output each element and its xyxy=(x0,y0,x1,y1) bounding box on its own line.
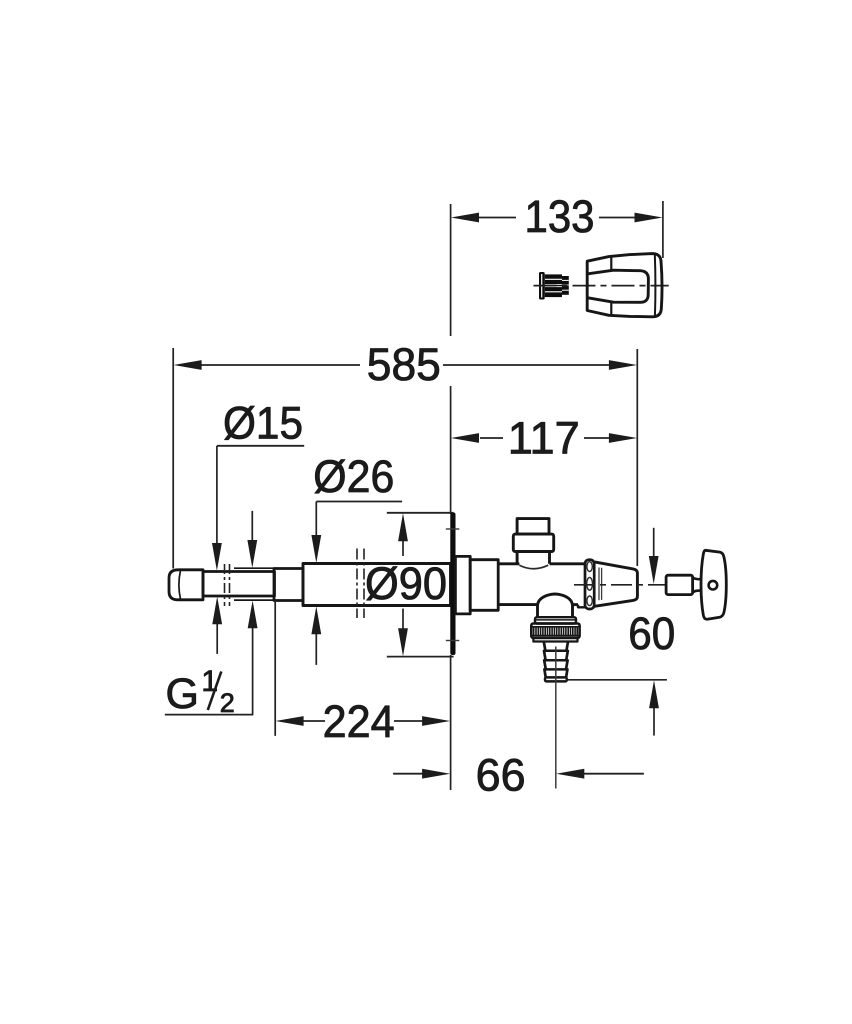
label G 1/2 xyxy=(166,665,235,718)
svg-text:585: 585 xyxy=(367,339,441,390)
hose barb xyxy=(544,642,568,682)
inlet pipe Ø15 xyxy=(203,572,275,597)
service key socket xyxy=(666,575,693,594)
top port flange xyxy=(513,534,553,551)
hose union ring upper xyxy=(535,617,576,623)
svg-text:Ø90: Ø90 xyxy=(365,558,447,609)
collar between pipes xyxy=(274,569,303,601)
thread spec G 1/2 down arrow xyxy=(247,511,257,568)
hose axis line xyxy=(555,647,557,789)
svg-text:2: 2 xyxy=(220,688,235,718)
plate tick bottom xyxy=(446,640,460,642)
svg-text:60: 60 xyxy=(628,608,675,659)
body centerline xyxy=(574,584,667,586)
service key neck xyxy=(693,578,702,593)
svg-text:1: 1 xyxy=(201,665,218,698)
dimension 224 extension line left xyxy=(274,601,276,736)
dimension 224 xyxy=(276,696,451,747)
dimension Ø90 bottom extent line xyxy=(387,656,454,658)
dimension 60 lower arrow xyxy=(649,680,659,735)
top port cap xyxy=(517,519,549,535)
dimension 133 extension line left (wall plane upper) xyxy=(450,204,452,336)
dimension 585 extension line left xyxy=(172,348,174,569)
svg-text:G: G xyxy=(166,670,199,718)
hose union knurled nut xyxy=(531,624,579,638)
body collar 2 xyxy=(470,560,498,611)
thread spec G 1/2 up arrow and leader xyxy=(165,601,258,715)
top port neck xyxy=(517,552,549,564)
label 60 xyxy=(628,608,675,659)
svg-text:117: 117 xyxy=(508,412,580,463)
dimension 585 / 117 shared extension line right xyxy=(636,349,638,566)
body collar 1 xyxy=(455,556,470,614)
knob centerline xyxy=(534,285,669,287)
top port seat arc xyxy=(519,565,548,569)
dimension 133 xyxy=(451,191,663,242)
pipe end cap xyxy=(169,570,203,600)
dimension Ø90 xyxy=(365,513,447,656)
svg-text:Ø26: Ø26 xyxy=(313,451,394,502)
hose union ring lower xyxy=(533,638,577,642)
handle knob outline xyxy=(587,254,662,317)
pipe break symbol 1 xyxy=(225,564,230,606)
connection pipe Ø26 xyxy=(303,564,451,606)
dimension 585 xyxy=(174,339,638,390)
dimension 60 lower extent line xyxy=(566,679,667,681)
wall plane extension line lower segment xyxy=(450,655,452,790)
wall flange plate xyxy=(450,513,455,656)
dimension 60 upper arrow xyxy=(649,528,659,584)
spout cone xyxy=(595,562,638,606)
service key T-handle xyxy=(701,550,726,619)
svg-text:66: 66 xyxy=(476,749,526,800)
valve body outline xyxy=(498,564,585,608)
dimension 66 xyxy=(393,749,644,800)
label Ø26 xyxy=(311,451,402,665)
spout base ring xyxy=(585,560,594,609)
dimension Ø90 top extent line xyxy=(387,512,454,514)
dimension 133 extension line right xyxy=(662,201,664,258)
plate tick top xyxy=(446,528,460,530)
handle adapter body xyxy=(545,274,562,297)
svg-text:133: 133 xyxy=(525,191,595,242)
bottom port dome xyxy=(538,594,573,617)
wall plane extension line middle segment xyxy=(450,386,452,514)
label Ø15 xyxy=(212,397,304,654)
svg-text:Ø15: Ø15 xyxy=(223,397,303,448)
pipe break symbol 2 xyxy=(357,549,364,619)
thread crest lines G1/2 xyxy=(234,568,274,600)
handle adapter flange xyxy=(539,272,545,300)
dimension 117 xyxy=(451,412,637,463)
svg-text:224: 224 xyxy=(323,696,395,747)
handle adapter ribs xyxy=(562,276,569,295)
